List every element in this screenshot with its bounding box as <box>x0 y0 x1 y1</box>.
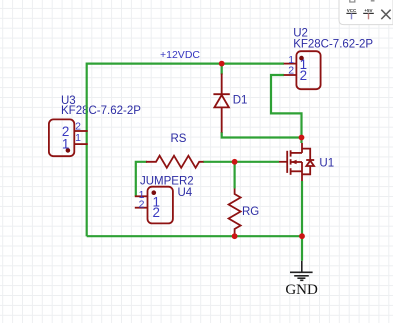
U1 gate arrow <box>291 160 297 165</box>
toolbar panel <box>339 0 393 25</box>
svg-text:KF28C-7.62-2P: KF28C-7.62-2P <box>293 39 373 51</box>
svg-text:+5V: +5V <box>364 8 372 13</box>
wire U1 source down to GND <box>301 181 303 261</box>
U3 pin1 marker dot <box>66 148 71 153</box>
svg-text:2: 2 <box>75 121 81 133</box>
junction dot drain node <box>299 135 305 141</box>
connector U3 <box>49 119 88 156</box>
junction dot RG bottom <box>232 233 238 239</box>
junction dot gate node <box>232 159 238 165</box>
svg-text:GND: GND <box>285 282 318 298</box>
svg-text:2: 2 <box>300 68 307 83</box>
wire RG top stub <box>234 162 236 189</box>
svg-text:U4: U4 <box>178 187 193 199</box>
wire RS left to U4 pin1 <box>136 162 147 197</box>
U4 inside pin numbers <box>152 194 159 220</box>
svg-text:D1: D1 <box>233 94 248 106</box>
svg-text:VCC: VCC <box>347 8 357 13</box>
junction dot top wire / D1 <box>219 61 225 67</box>
wire top horizontal net +12VDC <box>87 62 284 64</box>
svg-text:RS: RS <box>171 133 187 145</box>
U4 pin1 marker dot <box>152 190 157 195</box>
toolbar partial icon top right <box>371 0 375 2</box>
svg-text:1: 1 <box>62 136 69 151</box>
toolbar icon close X <box>381 10 390 19</box>
U2 inside pin numbers <box>300 57 307 83</box>
toolbar partial icon top left <box>350 0 355 2</box>
junction dot GND node <box>299 233 305 239</box>
connector U2 <box>284 51 321 89</box>
svg-text:2: 2 <box>288 65 294 77</box>
U2 outside pin numbers <box>288 54 294 76</box>
wire U2 pin2 to drain junction <box>271 75 302 143</box>
wire gate net RS to U1 <box>203 161 279 163</box>
resistor RG <box>229 189 241 237</box>
U3 outside pin numbers <box>75 121 81 144</box>
svg-text:U1: U1 <box>319 157 334 169</box>
diode D1 <box>213 74 229 133</box>
svg-text:RG: RG <box>242 206 259 218</box>
wire D1 top stub <box>221 64 223 75</box>
U4 outside pin numbers <box>139 189 145 211</box>
svg-text:1: 1 <box>75 132 81 144</box>
svg-text:2: 2 <box>152 205 159 220</box>
svg-text:JUMPER2: JUMPER2 <box>140 175 194 187</box>
connector U4 JUMPER2 <box>135 187 173 224</box>
wire left vertical <box>86 63 88 237</box>
resistor RS <box>146 156 204 168</box>
toolbar icon +5V <box>363 8 374 19</box>
svg-text:2: 2 <box>139 199 145 211</box>
toolbar icon VCC <box>346 8 357 19</box>
U3 inside pin numbers <box>62 124 69 151</box>
svg-text:KF28C-7.62-2P: KF28C-7.62-2P <box>61 105 141 117</box>
mosfet U1 <box>279 143 314 181</box>
wire D1 bottom to drain junction <box>222 132 302 138</box>
ground symbol <box>290 261 313 281</box>
svg-text:+12VDC: +12VDC <box>160 49 200 61</box>
U2 pin1 marker dot <box>299 56 304 61</box>
wire bottom horizontal <box>87 235 302 237</box>
